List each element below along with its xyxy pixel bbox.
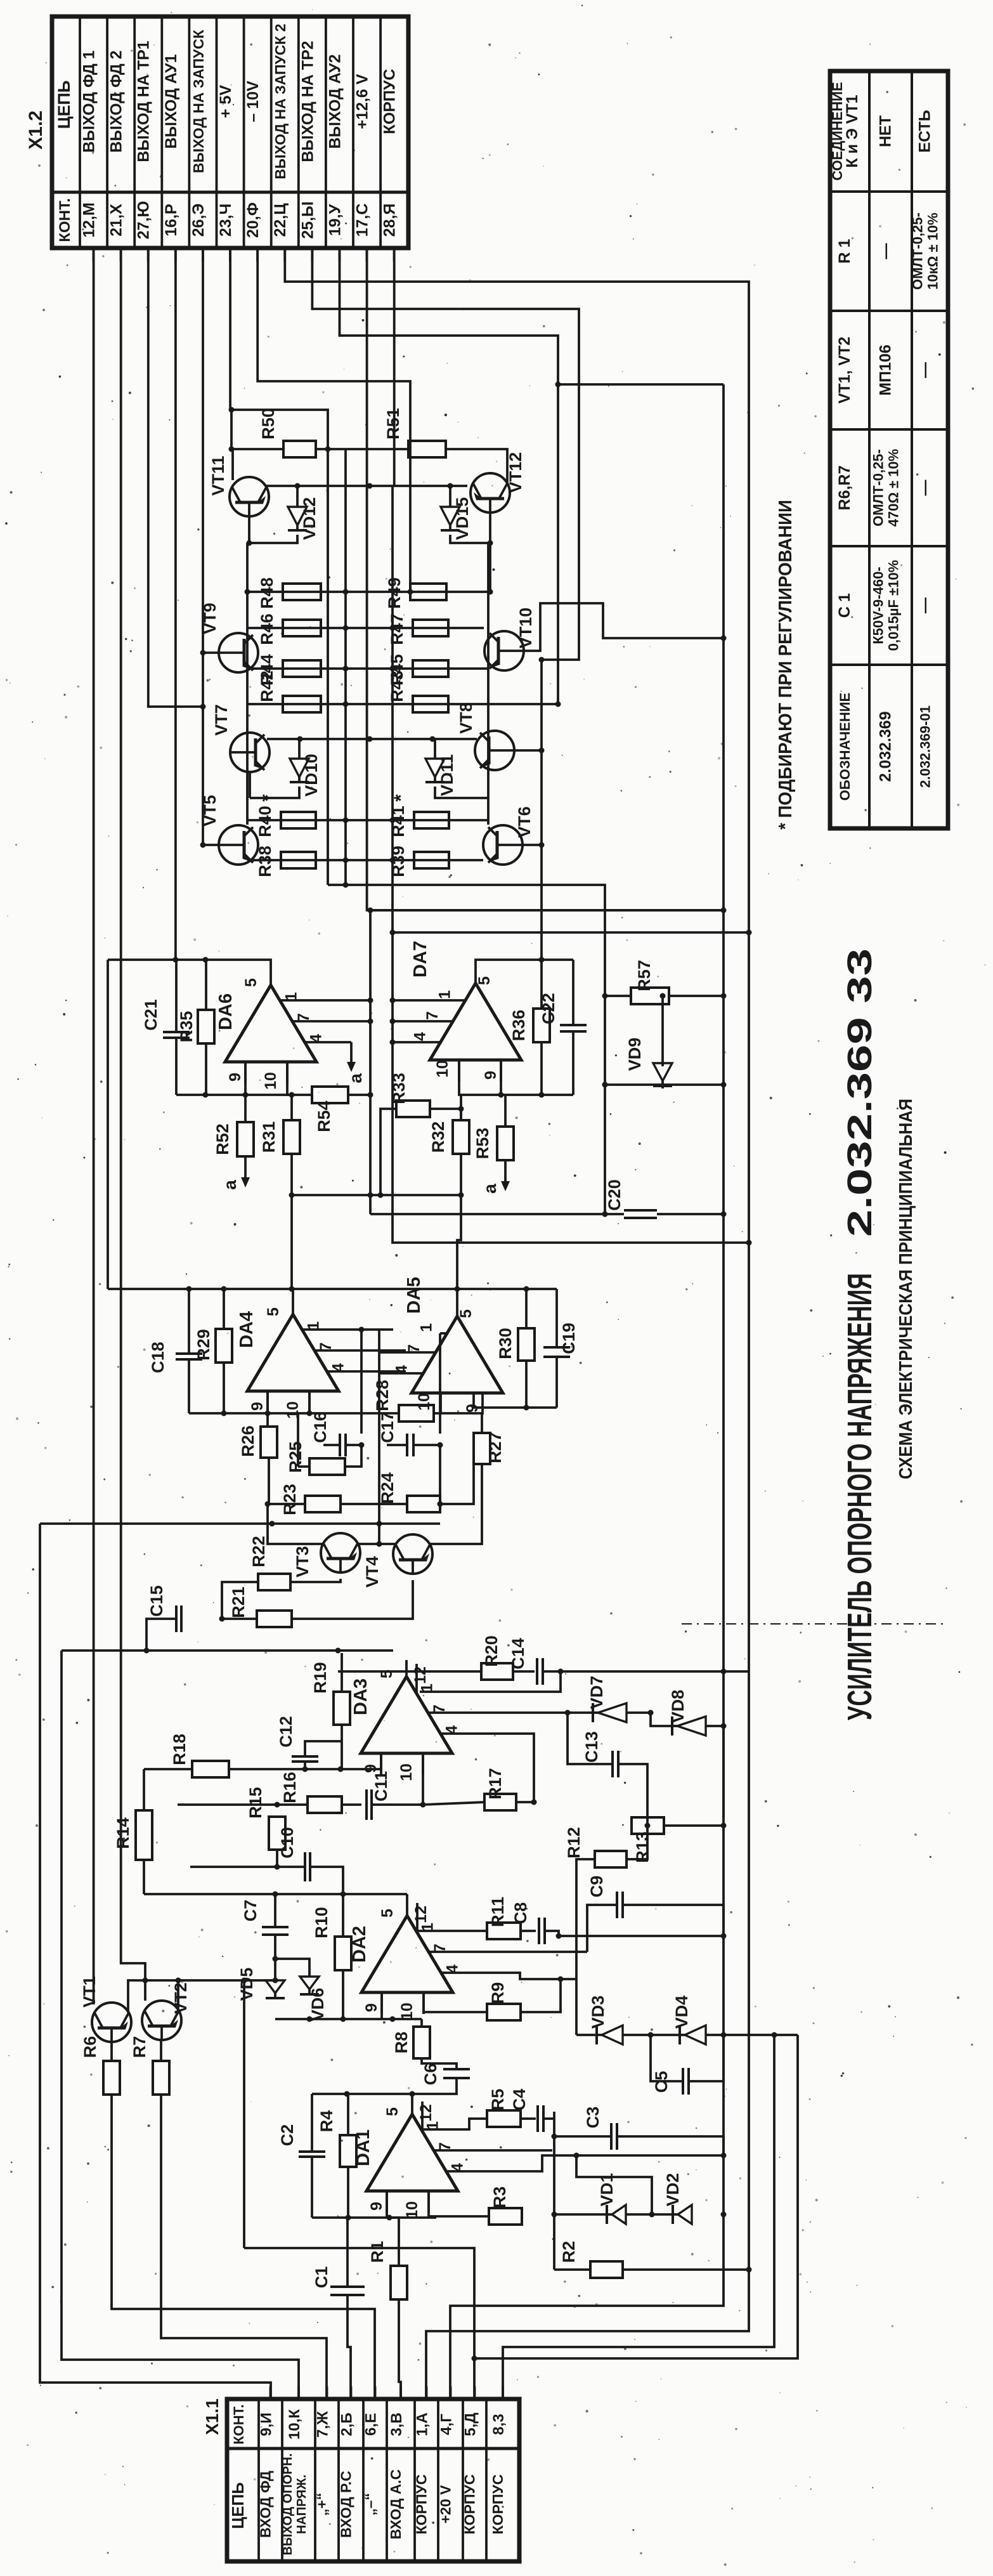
op-amp DA2 (349, 1899, 462, 2020)
wire trunk x619 low (393, 932, 749, 1243)
resistor R53 (473, 1127, 514, 1160)
junction dot 2789 (338, 1767, 344, 1772)
svg-text:1,А: 1,А (414, 2412, 431, 2436)
junction dot R31 top (289, 1092, 295, 1098)
resistor R48 (257, 577, 321, 609)
svg-text:C9: C9 (587, 1876, 606, 1898)
node a arrow R53 (504, 1160, 507, 1184)
diode VD8 (668, 1690, 706, 1736)
svg-text:„–“: „–“ (362, 2493, 379, 2516)
op-amp DA5 (393, 1277, 503, 1415)
node a arrow R52 (244, 1156, 247, 1180)
resistor R24 (378, 1472, 440, 1512)
transistor VT8 (457, 702, 514, 770)
svg-text:16,Р: 16,Р (162, 204, 180, 236)
svg-text:0,015µF ±10%: 0,015µF ±10% (886, 560, 902, 651)
svg-text:+20 V: +20 V (438, 2485, 454, 2523)
wire R31 top (290, 1095, 293, 1120)
svg-text:C4: C4 (510, 2089, 529, 2111)
resistor R3 (489, 2187, 522, 2225)
wire DA7 pin7 line (393, 1020, 454, 1023)
wire VT2 baseb (160, 2040, 162, 2061)
junction dots x854 (539, 657, 545, 848)
wire R19 bot (341, 1725, 343, 1769)
connector X1.1 pin texts (228, 2404, 507, 2555)
svg-text:VD9: VD9 (625, 1038, 644, 1071)
junction dot C17 (438, 1442, 443, 1507)
wire VT11 base (248, 516, 250, 543)
svg-text:VT1, VT2: VT1, VT2 (836, 337, 853, 404)
wire DA6 pin4 line (304, 1041, 351, 1043)
svg-text:20,Ф: 20,Ф (244, 202, 262, 238)
wire C2 top (311, 2094, 313, 2152)
transistor VT2 (142, 1982, 190, 2040)
junction dots y139x (343, 882, 349, 888)
wire VT2 coll (144, 1980, 146, 2001)
svg-text:R25: R25 (286, 1441, 305, 1473)
wire C20 rail (370, 1213, 624, 1215)
wire DA3 pin7 (428, 1711, 593, 1714)
wire right trunk x1221 (503, 2035, 774, 2399)
svg-text:R57: R57 (635, 960, 654, 991)
wire C15 left (146, 1619, 176, 1651)
svg-text:X1.2: X1.2 (25, 110, 46, 150)
junction dot R31 bot (289, 1286, 295, 1292)
svg-text:R5: R5 (488, 2089, 507, 2111)
wire R14 bot (143, 1860, 145, 1894)
capacitor C3 (583, 2107, 617, 2150)
svg-text:21,Х: 21,Х (108, 204, 126, 237)
svg-text:R12: R12 (564, 1827, 583, 1859)
transistor VT1 (80, 1976, 131, 2042)
svg-text:„+“: „+“ (314, 2493, 330, 2516)
capacitor C10 (278, 1827, 310, 1881)
svg-text:C7: C7 (241, 1900, 260, 1922)
svg-text:ВЫХОД НА ЗАПУСК 2: ВЫХОД НА ЗАПУСК 2 (272, 23, 289, 179)
resistor R40 (256, 806, 316, 837)
svg-text:VD5: VD5 (237, 1968, 256, 2001)
svg-text:УСИЛИТЕЛЬ ОПОРНОГО НАПРЯЖЕНИ: УСИЛИТЕЛЬ ОПОРНОГО НАПРЯЖЕНИЯ (841, 1273, 879, 1720)
svg-text:ЕСТЬ: ЕСТЬ (916, 110, 934, 152)
svg-text:R40: R40 (256, 806, 275, 837)
wire VD9 rail (605, 1083, 724, 1086)
wire rail 933 (247, 591, 490, 593)
svg-text:R52: R52 (213, 1123, 232, 1155)
wire VD9 top lead (661, 996, 664, 1066)
wire DA4 top rail (108, 1288, 557, 1290)
svg-text:R29: R29 (194, 1329, 213, 1361)
svg-text:ВЫХОД НА ТР2: ВЫХОД НА ТР2 (299, 41, 316, 162)
svg-text:10: 10 (398, 1763, 415, 1781)
wire DA4 pin9 wire (266, 1391, 269, 1427)
wire DA2 pin4b (441, 1973, 576, 1979)
resistor R41 (389, 806, 449, 837)
wire VT7-VT8 rail (267, 738, 477, 740)
svg-text:ЦЕПЬ: ЦЕПЬ (228, 2482, 247, 2529)
wire R13 right (664, 1824, 724, 1827)
svg-text:C15: C15 (147, 1585, 166, 1617)
svg-text:ОМЛТ-0,25-: ОМЛТ-0,25- (871, 449, 886, 526)
svg-text:C16: C16 (311, 1411, 330, 1443)
svg-text:C8: C8 (511, 1902, 530, 1925)
svg-text:R18: R18 (170, 1734, 189, 1765)
junction dots rails low (343, 818, 396, 863)
junction dot C16v (359, 1327, 365, 1333)
svg-text:НАПРЯЖ.: НАПРЯЖ. (295, 2475, 309, 2534)
resistor R57 (631, 960, 669, 1004)
resistor R2 (559, 2241, 623, 2278)
svg-text:С 1: С 1 (836, 593, 853, 618)
junction dots rail2402 (269, 1521, 382, 1527)
junction dots rail 1165 (297, 736, 436, 742)
svg-text:DA7: DA7 (410, 941, 431, 977)
wire VD1 anode up (576, 2155, 652, 2214)
svg-text:—: — (916, 362, 934, 378)
junction dots x954 (602, 993, 608, 1217)
svg-text:9: 9 (482, 1071, 500, 1080)
wire VD4 right (706, 2034, 798, 2036)
svg-text:VD3: VD3 (588, 1996, 607, 2029)
wire rail 3544 (244, 2248, 474, 2358)
wire DA5 bot rail (474, 1393, 557, 1408)
wire R20 right (513, 1670, 535, 1673)
diode VD1 (597, 2173, 626, 2224)
svg-text:VT7: VT7 (212, 704, 231, 736)
wire R11 right (521, 1930, 536, 1932)
svg-text:VT12: VT12 (506, 452, 525, 494)
svg-text:C17: C17 (378, 1411, 397, 1443)
svg-text:VD2: VD2 (663, 2173, 682, 2207)
wire R18 corner (143, 1769, 145, 1810)
wire C16 node (345, 1445, 361, 1467)
svg-text:VT6: VT6 (515, 806, 534, 838)
junction dots x874 (552, 2134, 557, 2218)
wire DA1 pin4 (446, 2155, 576, 2171)
wire VD7 right (626, 1713, 672, 1726)
junction dots 3491 (649, 2212, 727, 2218)
wire C20 rail r (657, 1213, 724, 1215)
wire rail 3183 (275, 2018, 422, 2020)
capacitor C20 (605, 1179, 657, 1218)
junction dots rail1726 (203, 1092, 249, 1098)
junction dot x598-2434 (377, 1541, 382, 1547)
svg-text:C2: C2 (278, 2124, 297, 2147)
capacitor C16 (311, 1411, 361, 1456)
svg-text:R19: R19 (311, 1662, 330, 1694)
wire C14 right (543, 1670, 749, 1673)
wire C6 bot (455, 2078, 458, 2094)
wire rail3052 (559, 1935, 724, 1937)
wire VT6 right link (522, 844, 542, 846)
junction dot R2 (746, 2267, 752, 2273)
svg-text:VD10: VD10 (302, 754, 321, 797)
wire VD15 bottom (450, 535, 490, 543)
capacitor C13 (582, 1731, 618, 1777)
svg-text:VT5: VT5 (200, 795, 219, 827)
wire rail2635 full (338, 1670, 481, 1673)
wire R9 right (521, 1979, 561, 2012)
wire C4 right2 (543, 2117, 554, 2120)
junction dot R54 (368, 1092, 373, 1098)
wire R33 right (430, 1109, 461, 1120)
wire DA7 pin9 (500, 1060, 502, 1095)
connector X1.2 pin stubs (94, 248, 394, 261)
capacitor C19 (543, 1289, 578, 1408)
svg-text:VT4: VT4 (363, 1556, 382, 1588)
wire DA5 pin7 (379, 1351, 436, 1354)
node a arrow DA6 (350, 1042, 353, 1064)
svg-text:ВЫХОД ФД 2: ВЫХОД ФД 2 (108, 50, 126, 152)
wire x385 trunk (243, 1980, 245, 2248)
svg-text:R6: R6 (81, 2036, 100, 2058)
op-amp DA7 (410, 941, 521, 1082)
transistor VT11 (209, 455, 269, 516)
svg-text:ОБОЗНАЧЕНИЕ: ОБОЗНАЧЕНИЕ (837, 693, 853, 801)
svg-text:1: 1 (436, 990, 454, 999)
resistor R11 (487, 1897, 521, 1939)
wire DA4 apex (292, 1289, 294, 1298)
resistor R14 (114, 1810, 152, 1860)
wire R51 right (446, 449, 507, 471)
wire rail 2943 (190, 1866, 305, 1868)
svg-text:R54: R54 (315, 1101, 334, 1132)
wire DA3 pin1 v (420, 1671, 561, 1692)
junction dots rail2635 (558, 1669, 564, 1675)
svg-text:1: 1 (418, 1323, 436, 1332)
junction dot VT2 top (143, 1978, 148, 1984)
wire VT9 base (203, 651, 219, 654)
junction dots rail2032 (186, 1286, 529, 1292)
wire DA7 pin4 line (393, 1041, 442, 1043)
svg-text:СХЕМА ЭЛЕКТРИЧЕСКАЯ ПРИНЦИПИ: СХЕМА ЭЛЕКТРИЧЕСКАЯ ПРИНЦИПИАЛЬНАЯ (896, 1099, 916, 1479)
svg-text:ОМЛТ-0,25-: ОМЛТ-0,25- (910, 212, 926, 290)
svg-text:DA6: DA6 (216, 993, 236, 1030)
diode VD9 (625, 1038, 672, 1086)
capacitor C5 (652, 2068, 689, 2095)
junction dots x1141 (721, 908, 727, 1939)
svg-text:R 1: R 1 (836, 239, 853, 263)
wire DA2 pin7b (429, 1951, 587, 1953)
resistor R9 (487, 1982, 521, 2020)
svg-text:R17: R17 (486, 1768, 505, 1800)
wire rail 3208 (576, 2034, 597, 2036)
wire R1 bot (399, 2299, 401, 2399)
svg-text:12,М: 12,М (81, 202, 98, 238)
connector X1.2 table grid (52, 16, 408, 248)
junction dots DA6 pins (368, 998, 373, 1024)
wire rail 2402 (40, 1522, 440, 1525)
wire VT10 right (524, 603, 724, 651)
fold mark (682, 1623, 945, 1625)
wire R33 left (380, 1109, 396, 1195)
wire VD12 top (296, 486, 299, 507)
svg-text:КОРПУС: КОРПУС (490, 2475, 506, 2535)
wire R32 leads (460, 1095, 462, 1120)
junction dots DA7 bot (539, 1092, 545, 1098)
svg-text:10: 10 (403, 2201, 421, 2219)
capacitor C9 (587, 1876, 623, 1918)
svg-text:C10: C10 (278, 1827, 297, 1859)
resistor R27 (474, 1432, 505, 1464)
wire C13 left (568, 1713, 613, 1764)
connector X1.1 pin stubs (271, 2386, 503, 2399)
svg-text:R28: R28 (373, 1380, 392, 1411)
svg-text:R6,R7: R6,R7 (836, 466, 853, 511)
wire DA5 apex (456, 1289, 458, 1300)
svg-text:10,К: 10,К (286, 2409, 303, 2440)
svg-text:12: 12 (417, 2104, 435, 2122)
capacitor C2 (278, 2124, 325, 2157)
wire pin 28,Я drop (393, 248, 396, 486)
svg-text:R8: R8 (392, 2032, 411, 2054)
wire left branch x170 (107, 960, 109, 1289)
wire VD1-VD2 (626, 2213, 673, 2216)
wire DA1 pin9 (386, 2191, 388, 2218)
wire VD1 rail (554, 2213, 607, 2216)
svg-text:R50: R50 (259, 408, 278, 440)
op-amp DA6 (216, 969, 325, 1090)
svg-text:10: 10 (262, 1072, 280, 1090)
junction dots rail1513 (172, 957, 208, 963)
wire DA7 bottom rail (459, 1060, 573, 1095)
junction dot VT2 emitter (176, 1978, 181, 1984)
svg-text:R26: R26 (238, 1425, 257, 1457)
svg-text:C11: C11 (372, 1771, 391, 1801)
wire VT5 base (203, 844, 219, 846)
svg-text:2.032.369-01: 2.032.369-01 (918, 705, 933, 788)
resistor R52 (213, 1122, 254, 1156)
svg-text:10кΩ ± 10%: 10кΩ ± 10% (925, 212, 941, 289)
svg-text:+ 5V: + 5V (217, 85, 235, 118)
resistor R8 (392, 2019, 430, 2058)
wire +rail R50 (231, 448, 283, 450)
resistor R7 (130, 2036, 169, 2095)
wire y3122 line (145, 1979, 275, 1982)
wire C1 up (346, 2218, 349, 2287)
parts table grid (830, 71, 948, 828)
wire R57 right (669, 995, 724, 997)
svg-text:4: 4 (411, 1032, 429, 1041)
junction dot 2986 (341, 1892, 346, 1897)
svg-text:R48: R48 (257, 577, 276, 609)
wire pin 16,Р drop (174, 248, 177, 960)
resistor R51 (384, 408, 446, 457)
wire y1435 run (367, 909, 724, 912)
junction dot y606 (555, 382, 561, 388)
svg-text:5: 5 (379, 1909, 396, 1918)
svg-text:ВЫХОД НА ЗАПУСК: ВЫХОД НА ЗАПУСК (190, 29, 207, 173)
wire C7 top (274, 1894, 276, 1927)
svg-text:R35: R35 (177, 1011, 196, 1043)
wire DA2 pin1 (416, 1930, 487, 1932)
svg-text:КОРПУС: КОРПУС (462, 2475, 478, 2535)
wire R23 left (268, 1503, 305, 1505)
wire C1 bot (347, 2295, 351, 2399)
wire DA4 pin7 (315, 1349, 406, 1352)
svg-text:К и Э VT1: К и Э VT1 (843, 95, 861, 167)
svg-text:2.032.369 33: 2.032.369 33 (841, 948, 879, 1237)
parts table texts (829, 82, 941, 801)
svg-text:R51: R51 (384, 408, 403, 440)
wire C16 vertical (360, 1330, 363, 1434)
resistor R50 (259, 408, 316, 457)
svg-text:*: * (391, 794, 412, 802)
resistor R28 (373, 1380, 482, 1422)
wire R21 right (292, 1580, 413, 1619)
svg-text:5,Д: 5,Д (462, 2412, 479, 2436)
resistor R10 (312, 1907, 351, 1970)
resistor R26 (238, 1425, 277, 1504)
wire DA6 pin1 line (280, 999, 370, 1002)
wire VD12 bottom (249, 535, 297, 543)
junction dot R12 (645, 1823, 651, 1829)
wire pin 25,Ы drop (312, 248, 579, 960)
wire C5 right2 (689, 2035, 724, 2081)
resistor R39 (389, 846, 449, 877)
svg-text:R1: R1 (368, 2241, 387, 2263)
svg-text:а: а (480, 1184, 500, 1194)
svg-text:КОРПУС: КОРПУС (381, 69, 399, 134)
junction dot VT5 base (200, 842, 206, 848)
svg-text:VT8: VT8 (457, 702, 476, 734)
wire left trunk x63 (40, 1524, 271, 2399)
wire pin 17,С drop (367, 248, 724, 910)
resistor R44 (257, 654, 321, 686)
wire R36 leads (540, 960, 543, 1009)
junction dots 3301 (344, 2091, 415, 2097)
wire R4 bot (347, 2167, 349, 2218)
svg-text:DA5: DA5 (404, 1277, 424, 1314)
svg-text:– 10V: – 10V (244, 81, 262, 122)
junction dot 23Ч T (229, 407, 235, 413)
wire VT7 base down (249, 772, 251, 798)
capacitor C17 (378, 1411, 440, 1456)
svg-text:9: 9 (368, 2202, 386, 2211)
svg-text:26,Э: 26,Э (190, 204, 207, 237)
junction dots y1470 (390, 930, 752, 936)
wire R15 bot (276, 1850, 278, 1867)
wire R50 right (316, 448, 346, 450)
svg-text:27,Ю: 27,Ю (135, 201, 153, 240)
wire VT2 emitter up (177, 1980, 179, 2011)
wire R12 link (626, 1826, 647, 1859)
wire DA2 pin9b (380, 1992, 383, 2019)
wire R36 bot (540, 1042, 543, 1095)
wire C7 bot (274, 1935, 276, 1980)
resistor R6 (81, 2036, 120, 2095)
resistor R47 (387, 613, 448, 645)
junction dot 3718 (472, 2356, 477, 2362)
svg-text:R21: R21 (229, 1586, 248, 1618)
wire C10 right (310, 1867, 343, 1894)
wire DA6 top rail (108, 960, 271, 969)
svg-text:17,С: 17,С (354, 204, 372, 237)
wire pin 22,Ц drop (285, 248, 749, 2399)
wire right trunk x1141 (450, 384, 724, 2399)
svg-text:7: 7 (424, 1011, 441, 1020)
resistor R45 (387, 654, 448, 686)
wire pin 27,Ю drop (148, 248, 203, 707)
wire pin 12,М drop (93, 248, 95, 2004)
wire right spine (487, 543, 490, 825)
wire C8 right2 (545, 1931, 559, 1936)
wire x909 down (575, 1979, 578, 2035)
transistor VT4 (363, 1534, 432, 1588)
junction dot VT bases (247, 540, 493, 546)
wire C3 rail (554, 2135, 611, 2138)
svg-text:C13: C13 (582, 1731, 601, 1763)
wire trunk x545 (344, 449, 347, 885)
